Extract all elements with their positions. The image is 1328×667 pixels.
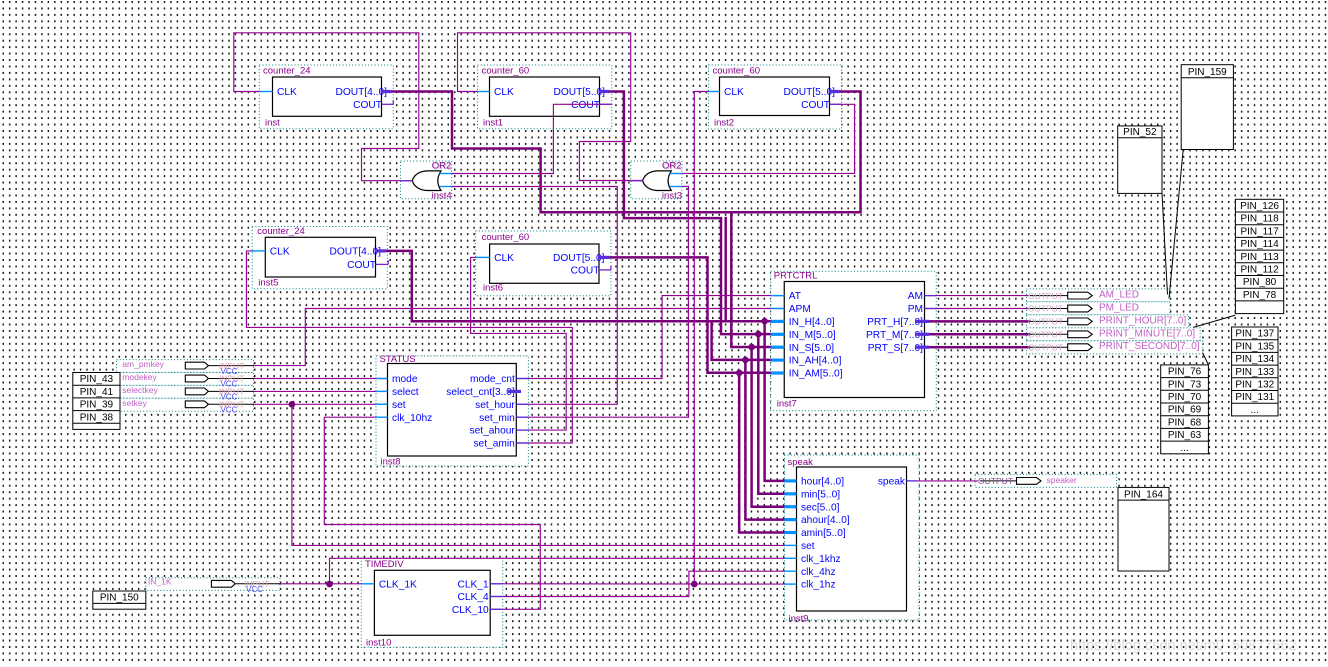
svg-text:CLK: CLK: [277, 87, 297, 98]
svg-text:CLK_1K: CLK_1K: [379, 579, 417, 590]
svg-text:PIN_159: PIN_159: [1188, 67, 1227, 78]
svg-text:IN_AH[4..0]: IN_AH[4..0]: [789, 356, 842, 367]
svg-text:selectkey: selectkey: [122, 385, 158, 395]
svg-text:PIN_43: PIN_43: [80, 374, 114, 385]
svg-text:PIN_114: PIN_114: [1240, 239, 1279, 250]
svg-text:PRINT_SECOND[7..0]: PRINT_SECOND[7..0]: [1099, 341, 1200, 352]
svg-text:COUT: COUT: [347, 260, 376, 271]
svg-text:OR2: OR2: [662, 161, 682, 172]
svg-text:PIN_70: PIN_70: [1168, 392, 1202, 403]
svg-text:OUTPUT: OUTPUT: [1028, 304, 1063, 314]
svg-text:PRT_S[7..0]: PRT_S[7..0]: [868, 343, 923, 354]
svg-text:PIN_39: PIN_39: [80, 400, 114, 411]
svg-text:PIN_52: PIN_52: [1123, 127, 1157, 138]
svg-text:set_hour: set_hour: [475, 400, 515, 411]
svg-text:hour[4..0]: hour[4..0]: [801, 477, 844, 488]
svg-text:mode_cnt: mode_cnt: [470, 374, 515, 385]
svg-text:am_pmkey: am_pmkey: [122, 359, 164, 369]
svg-text:PIN_68: PIN_68: [1168, 417, 1202, 428]
svg-text:speaker: speaker: [1047, 475, 1077, 485]
svg-text:PIN_80: PIN_80: [1243, 277, 1277, 288]
svg-text:set_ahour: set_ahour: [469, 426, 515, 437]
svg-text:PIN_126: PIN_126: [1240, 201, 1279, 212]
svg-text:VCC: VCC: [221, 406, 238, 415]
svg-text:VCC: VCC: [246, 585, 263, 594]
svg-text:inst2: inst2: [714, 118, 734, 129]
svg-text:speak: speak: [878, 477, 906, 488]
svg-text:CLK: CLK: [270, 247, 290, 258]
svg-text:PM_LED: PM_LED: [1099, 303, 1139, 314]
svg-text:PIN_112: PIN_112: [1240, 265, 1279, 276]
svg-text:counter_60: counter_60: [482, 232, 530, 243]
svg-text:IN_S[5..0]: IN_S[5..0]: [789, 343, 834, 354]
svg-text:PIN_78: PIN_78: [1243, 290, 1277, 301]
svg-text:inst9: inst9: [789, 613, 809, 624]
svg-text:...: ...: [1251, 405, 1259, 416]
svg-text:PIN_113: PIN_113: [1240, 252, 1279, 263]
svg-text:set: set: [392, 400, 406, 411]
svg-text:PIN_38: PIN_38: [80, 412, 114, 423]
svg-text:PIN_131: PIN_131: [1235, 392, 1274, 403]
svg-text:COUT: COUT: [353, 100, 382, 111]
svg-text:CLK: CLK: [494, 253, 514, 264]
svg-text:COUT: COUT: [571, 100, 600, 111]
svg-text:counter_60: counter_60: [713, 66, 761, 77]
svg-text:TIMEDIV: TIMEDIV: [365, 559, 404, 570]
svg-text:select: select: [392, 387, 419, 398]
svg-text:DOUT[5..0]: DOUT[5..0]: [553, 253, 605, 264]
svg-text:CLK_4: CLK_4: [458, 592, 489, 603]
svg-text:clk_1hz: clk_1hz: [801, 580, 836, 591]
svg-text:PRINT_MINUTE[7..0]: PRINT_MINUTE[7..0]: [1099, 328, 1195, 339]
svg-text:PIN_164: PIN_164: [1124, 490, 1163, 501]
svg-text:clk_1khz: clk_1khz: [801, 554, 841, 565]
svg-text:set_amin: set_amin: [473, 439, 514, 450]
svg-text:OUTPUT: OUTPUT: [1028, 317, 1063, 327]
svg-text:inst: inst: [265, 118, 280, 129]
svg-text:CLK_10: CLK_10: [452, 605, 489, 616]
svg-text:OUTPUT: OUTPUT: [1028, 330, 1063, 340]
svg-text:mode: mode: [392, 374, 418, 385]
svg-text:IN_H[4..0]: IN_H[4..0]: [789, 317, 835, 328]
svg-text:CLK: CLK: [494, 87, 514, 98]
svg-text:COUT: COUT: [571, 266, 600, 277]
svg-text:inst4: inst4: [432, 191, 452, 202]
svg-text:PIN_73: PIN_73: [1168, 379, 1202, 390]
svg-text:APM: APM: [789, 304, 811, 315]
svg-text:PIN_76: PIN_76: [1168, 367, 1202, 378]
svg-text:PIN_69: PIN_69: [1168, 405, 1202, 416]
svg-text:PIN_117: PIN_117: [1240, 226, 1279, 237]
svg-text:select_cnt[3..0]: select_cnt[3..0]: [446, 387, 515, 398]
svg-text:PM: PM: [908, 304, 923, 315]
svg-text:inst10: inst10: [366, 638, 391, 649]
svg-text:PRT_H[7..0]: PRT_H[7..0]: [867, 317, 923, 328]
svg-text:inst1: inst1: [483, 118, 503, 129]
svg-text:PIN_133: PIN_133: [1235, 367, 1274, 378]
svg-text:setkey: setkey: [122, 398, 147, 408]
svg-text:PRT_M[7..0]: PRT_M[7..0]: [866, 330, 923, 341]
svg-text:counter_60: counter_60: [482, 66, 530, 77]
svg-text:PIN_63: PIN_63: [1168, 430, 1202, 441]
svg-text:clk_4hz: clk_4hz: [801, 567, 836, 578]
svg-text:inst6: inst6: [483, 283, 503, 294]
svg-text:inst5: inst5: [258, 277, 278, 288]
svg-text:inst8: inst8: [381, 457, 401, 468]
svg-text:PIN_137: PIN_137: [1235, 329, 1274, 340]
svg-text:OR2: OR2: [432, 161, 452, 172]
svg-text:OUTPUT: OUTPUT: [1028, 342, 1063, 352]
svg-text:set: set: [801, 541, 815, 552]
svg-text:AM_LED: AM_LED: [1099, 290, 1139, 301]
svg-text:CLK_1: CLK_1: [458, 579, 489, 590]
svg-text:set_min: set_min: [479, 413, 515, 424]
svg-text:PRINT_HOUR[7..0]: PRINT_HOUR[7..0]: [1099, 315, 1186, 326]
svg-text:DOUT[4..0]: DOUT[4..0]: [329, 247, 381, 258]
svg-text:counter_24: counter_24: [257, 226, 305, 237]
svg-text:OUTPUT: OUTPUT: [1028, 291, 1063, 301]
svg-text:counter_24: counter_24: [263, 66, 311, 77]
svg-text:IN_M[5..0]: IN_M[5..0]: [789, 330, 836, 341]
svg-text:AM: AM: [908, 291, 923, 302]
svg-text:PIN_134: PIN_134: [1235, 354, 1274, 365]
svg-text:PIN_41: PIN_41: [80, 387, 114, 398]
svg-text:COUT: COUT: [801, 100, 830, 111]
svg-text:PIN_118: PIN_118: [1240, 214, 1279, 225]
svg-text:speak: speak: [788, 457, 814, 468]
svg-text:clk_10hz: clk_10hz: [392, 413, 432, 424]
svg-text:IN_AM[5..0]: IN_AM[5..0]: [789, 369, 843, 380]
svg-text:DOUT[5..0]: DOUT[5..0]: [553, 87, 605, 98]
svg-text:min[5..0]: min[5..0]: [801, 489, 840, 500]
svg-text:modekey: modekey: [122, 372, 157, 382]
svg-text:DOUT[5..0]: DOUT[5..0]: [783, 87, 835, 98]
svg-text:PRTCTRL: PRTCTRL: [774, 271, 818, 282]
svg-text:...: ...: [1180, 443, 1188, 454]
svg-text:PIN_135: PIN_135: [1235, 341, 1274, 352]
svg-text:inst3: inst3: [662, 191, 682, 202]
svg-text:amin[5..0]: amin[5..0]: [801, 528, 846, 539]
svg-text:ahour[4..0]: ahour[4..0]: [801, 515, 850, 526]
svg-text:PIN_132: PIN_132: [1235, 380, 1274, 391]
svg-text:sec[5..0]: sec[5..0]: [801, 502, 840, 513]
svg-text:CLK: CLK: [724, 87, 744, 98]
svg-text:AT: AT: [789, 291, 801, 302]
svg-text:DOUT[4..0]: DOUT[4..0]: [335, 87, 387, 98]
svg-text:PIN_150: PIN_150: [100, 592, 139, 603]
svg-text:IN_1K: IN_1K: [148, 576, 172, 586]
svg-text:OUTPUT: OUTPUT: [978, 476, 1013, 486]
svg-text:inst7: inst7: [777, 399, 797, 410]
svg-text:STATUS: STATUS: [380, 354, 416, 365]
